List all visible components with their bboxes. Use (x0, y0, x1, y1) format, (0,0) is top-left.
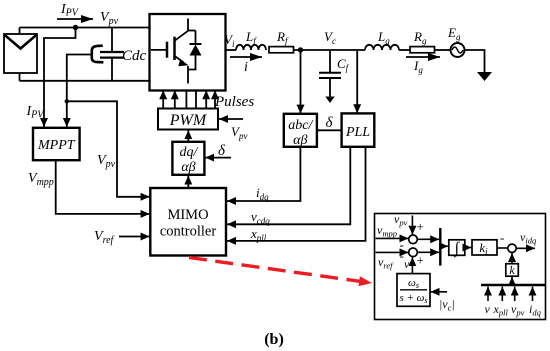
arrow summer2 to bar (417, 251, 439, 253)
ground under C_f (325, 97, 334, 104)
svg-text:δ: δ (218, 143, 226, 159)
wire Vc to PLL block (356, 50, 358, 113)
arrow delta into dq (205, 157, 231, 159)
svg-text:Lf: Lf (245, 29, 257, 46)
arrow V_pv into PWM (219, 118, 243, 120)
bus bar (481, 284, 545, 286)
arrow v_pv into summer 1 (411, 216, 413, 235)
wire (435, 49, 451, 51)
abc/ab block (284, 114, 317, 148)
svg-text:idq: idq (256, 185, 269, 202)
svg-text:Vref: Vref (94, 229, 115, 246)
MIMO controller block (150, 188, 226, 256)
wire delta abc to PLL (317, 129, 342, 131)
inverter U1 (150, 14, 226, 91)
svg-text:Ig: Ig (413, 58, 423, 75)
summer 1 (409, 235, 418, 244)
svg-text:+: + (417, 253, 424, 268)
wire x_pll to MIMO (227, 147, 366, 241)
wire (399, 49, 410, 51)
wire Eg to ground (465, 50, 485, 72)
pulses arrows (163, 90, 215, 109)
arrow V_ref into MIMO (119, 236, 150, 238)
node Vpv sense junction dot (65, 99, 69, 103)
wire PV bottom lead (19, 73, 21, 81)
PV panel (4, 34, 37, 73)
svg-text:Cf: Cf (337, 56, 350, 73)
svg-text:ωs: ωs (408, 277, 419, 290)
wire V_mpp to MIMO (56, 160, 150, 214)
capacitor C_f (319, 50, 341, 97)
capacitor Cdc (92, 28, 124, 81)
svg-text:Vc: Vc (324, 29, 336, 46)
svg-text:ki: ki (479, 240, 488, 257)
arrow i (230, 56, 262, 58)
svg-text:xpll: xpll (250, 226, 267, 243)
svg-text:idq: idq (529, 302, 542, 318)
red dashed arrow to inset (189, 258, 372, 284)
svg-text:Vmpp: Vmpp (28, 171, 54, 188)
wire k_i to summer 3 (497, 247, 508, 249)
gain block k (506, 263, 519, 277)
svg-text:dq/: dq/ (180, 145, 199, 160)
integrator block (449, 240, 465, 258)
wire v_cdq to MIMO (227, 147, 350, 225)
combiner bar (439, 228, 441, 266)
svg-text:PLL: PLL (345, 125, 370, 140)
ground (477, 72, 492, 81)
wire bottom DC rail (20, 80, 151, 82)
svg-text:Vpv: Vpv (97, 153, 116, 170)
arrow x_pll into bus (501, 287, 503, 301)
summer 2 (409, 248, 418, 257)
svg-text:(b): (b) (264, 331, 284, 348)
filter block omega (397, 274, 430, 307)
inductor L_f (236, 45, 266, 50)
source E_g (451, 43, 465, 57)
svg-text:vpv: vpv (394, 212, 408, 228)
node Vpv junction dot (73, 25, 78, 30)
wire filter to summer 2 (411, 257, 413, 273)
wire inverter output (226, 49, 237, 51)
svg-text:v: v (485, 302, 491, 316)
svg-text:Vpv: Vpv (100, 10, 119, 27)
svg-text:vidq: vidq (520, 230, 537, 246)
svg-text:Eg: Eg (447, 25, 461, 42)
svg-text:Cdc: Cdc (122, 48, 147, 64)
svg-text:Vpv: Vpv (231, 124, 247, 141)
PWM block (158, 109, 218, 130)
wire Vpv sense from Cdc to junction (67, 55, 92, 102)
svg-text:αβ: αβ (293, 133, 307, 148)
wire I_PV sense into MPPT (44, 28, 76, 127)
arrow integrator to k_i (465, 247, 472, 249)
wire Vc to abc block (300, 50, 302, 114)
PLL block (342, 113, 375, 146)
arrow output v_idq (516, 247, 535, 249)
summer 3 (508, 244, 516, 252)
arrow i_dq into bus (532, 287, 534, 301)
resistor R_f (269, 47, 294, 53)
wire AC rail (294, 49, 366, 51)
wire top DC rail (20, 27, 151, 29)
svg-text:Pulses: Pulses (214, 94, 254, 110)
svg-text:abc/: abc/ (288, 118, 313, 133)
arrow v_mpp into summer 1 (376, 237, 409, 239)
svg-text:vcdq: vcdq (251, 209, 270, 226)
svg-text:MIMO: MIMO (167, 207, 208, 223)
svg-text:xpll: xpll (493, 302, 509, 318)
svg-text:δ: δ (326, 115, 334, 131)
svg-text:vpv: vpv (511, 302, 525, 318)
svg-text:controller: controller (160, 224, 217, 240)
dq/ab block (172, 142, 204, 175)
svg-text:i: i (244, 60, 248, 75)
arrow MIMO to dq (187, 176, 189, 188)
arrow v_ref into summer 2 (376, 251, 409, 253)
arrow bar to integrator (440, 245, 448, 247)
svg-text:-: - (500, 230, 504, 245)
svg-text:PWM: PWM (169, 112, 208, 129)
gain block k_i (472, 240, 497, 257)
resistor R_g (410, 47, 435, 53)
svg-text:Rf: Rf (276, 29, 289, 46)
arrow vc into filter (431, 291, 447, 293)
arrow I_PV (57, 18, 93, 20)
inductor L_g (365, 45, 399, 50)
svg-text:|vc|: |vc| (439, 297, 455, 313)
inset box (375, 214, 546, 320)
svg-text:s + ωs: s + ωs (399, 292, 427, 305)
wire PV top lead (19, 28, 21, 35)
wire i_dq to MIMO (227, 147, 300, 201)
arrow I_g (406, 56, 440, 58)
svg-text:IPV: IPV (26, 104, 46, 121)
svg-text:k: k (509, 263, 515, 277)
svg-text:+: + (417, 219, 424, 234)
svg-text:MPPT: MPPT (37, 138, 76, 153)
arrow bus to k (511, 277, 513, 285)
arrow v_pv into bus (514, 287, 516, 301)
diode D1 (188, 31, 202, 70)
svg-text:Vi: Vi (224, 32, 235, 49)
svg-text:αβ: αβ (181, 160, 195, 175)
svg-text:v: v (404, 257, 410, 271)
transistor IGBT (151, 19, 196, 84)
MPPT block (33, 128, 80, 160)
arrow summer1 to bar (417, 238, 439, 240)
svg-text:Lg: Lg (377, 29, 390, 46)
svg-text:IPV: IPV (60, 2, 80, 19)
arrow k to summer 3 (511, 253, 513, 264)
arrow dq to PWM (187, 130, 189, 142)
wire Vpv sense into MPPT (66, 101, 68, 127)
node Vc junction dot (298, 47, 303, 52)
svg-text:vref: vref (378, 255, 394, 271)
arrow v into bus (487, 287, 489, 301)
svg-text:Rg: Rg (413, 29, 427, 46)
wire Vpv sense to MIMO (67, 101, 150, 197)
